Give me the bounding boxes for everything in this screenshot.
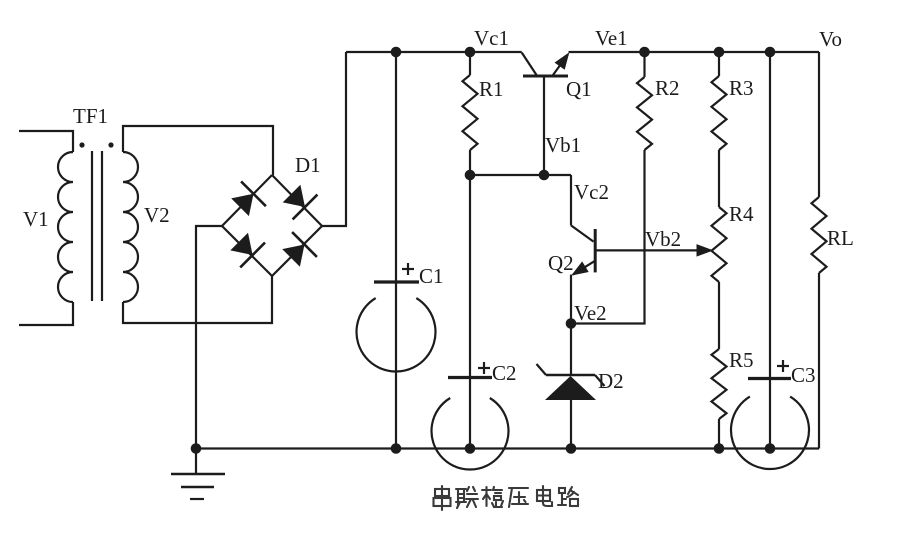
resistor R5 [712,349,727,419]
wire Ve2 to D2 [570,324,572,376]
wire C2 column [469,175,471,449]
diode D1d bottom-right [282,245,304,267]
resistor RL [812,197,827,273]
svg-text:Vb2: Vb2 [645,227,681,251]
wire R1 top stub [469,52,471,75]
wire bridge minus to ground rail [196,226,222,449]
capacitor C2 [448,376,492,379]
wire secondary top to bridge [123,126,273,175]
wire R3 top stub [718,52,720,76]
node C2 bottom [465,443,476,454]
transformer core [91,151,93,301]
svg-text:R4: R4 [729,202,754,226]
node Vc1 [465,47,476,58]
wire R2 bottom to Ve2 [571,150,645,324]
node R3 top [714,47,725,58]
zener D2 right hook [595,375,605,386]
svg-text:Ve1: Ve1 [595,26,628,50]
transistor Q1 collector [522,53,537,76]
svg-text:C3: C3 [791,363,816,387]
wire Q2 base Vb2 to R4 wiper [595,249,700,251]
node C1 bottom [391,443,402,454]
resistor R4 potentiometer [712,207,727,282]
diode D1c bottom-left [230,233,252,255]
svg-text:Vc1: Vc1 [474,26,509,50]
svg-text:R5: R5 [729,348,754,372]
capacitor C3 [748,377,791,380]
svg-text:Q1: Q1 [566,77,592,101]
resistor R1 [463,75,478,150]
wire R1 bottom stub [469,150,471,175]
svg-text:V2: V2 [144,203,170,227]
zener D2 triangle [545,376,596,400]
diode D1b top-right [283,185,305,207]
node Ve1 [639,47,650,58]
wire primary input top [19,131,73,152]
svg-text:D1: D1 [295,153,321,177]
wire R5 bottom stub [718,419,720,449]
transistor Q2 emitter arrow [572,262,588,275]
zener D2 cathode bar [546,374,595,377]
wire Vo column [769,52,771,449]
transistor Q2 base bar [594,229,597,272]
svg-text:R3: R3 [729,76,754,100]
bridge diamond wires [222,175,322,276]
wire RL top [818,52,820,197]
node R5 bottom [714,443,725,454]
wire C1 column [395,52,397,449]
wire top rail left of Q1 [346,51,522,53]
transistor Q1 emitter arrow [555,54,568,69]
resistor R2 [637,77,652,150]
node Vo column top [765,47,776,58]
node Ve2 [566,318,577,329]
transformer secondary winding V2 [123,152,138,302]
svg-text:D2: D2 [598,369,624,393]
zener D2 left hook [537,364,547,375]
caption 串联稳压电路 [434,486,451,510]
svg-text:Vo: Vo [819,27,842,51]
wire R4-R5 [718,282,720,349]
transistor Q2 emitter diagonal [573,261,595,275]
wire RL bottom [818,273,820,449]
svg-text:Ve2: Ve2 [574,301,607,325]
node C3 bottom [765,443,776,454]
svg-text:RL: RL [827,226,854,250]
phase dot primary [79,142,84,147]
node R1 bottom [465,170,476,181]
wire primary input bottom [19,302,73,325]
wire Q2 collector drop [570,175,572,225]
transformer primary winding V1 [58,152,73,302]
wiper arrow into R4 [697,245,712,256]
phase dot secondary [108,142,113,147]
wire secondary bottom to bridge [123,276,272,323]
svg-text:R1: R1 [479,77,504,101]
svg-text:R2: R2 [655,76,680,100]
svg-text:TF1: TF1 [73,104,108,128]
svg-text:C2: C2 [492,361,517,385]
wire R2 top stub [643,52,645,77]
transistor Q1 emitter [553,55,568,76]
wire bottom rail [196,447,819,449]
resistor R3 [712,76,727,150]
wire top rail right of Q1 [569,51,820,53]
wire R3-R4 [718,150,720,207]
wire Q1 base lead Vb1 [543,77,545,175]
node ground junction [191,443,202,454]
svg-text:Vc2: Vc2 [574,180,609,204]
diode D1a top-left [231,194,253,216]
node C1 top [391,47,402,58]
transistor Q2 collector diagonal [571,225,594,241]
wire D2 to bottom rail [570,400,572,449]
ground symbol [195,449,197,475]
svg-text:Q2: Q2 [548,251,574,275]
wire Q2 emitter drop [570,275,572,324]
wire bridge plus to top rail [322,52,346,226]
capacitor C1 [374,280,419,283]
svg-text:C1: C1 [419,264,444,288]
transistor Q1 base bar [523,75,568,78]
node D2 bottom [566,443,577,454]
svg-text:Vb1: Vb1 [545,133,581,157]
svg-text:V1: V1 [23,207,49,231]
node Vb1 junction [539,170,550,181]
wire R1 bottom to Vc2 corner [470,174,571,176]
